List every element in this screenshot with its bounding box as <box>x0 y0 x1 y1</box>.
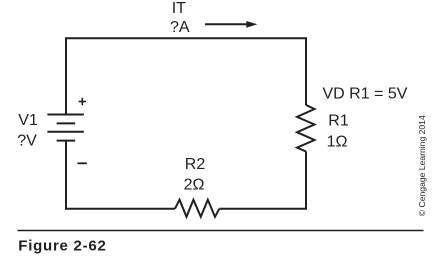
svg-text:?V: ?V <box>17 133 37 150</box>
plus sign <box>79 98 86 105</box>
svg-text:Figure 2-62: Figure 2-62 <box>18 237 106 254</box>
minus sign <box>78 162 87 164</box>
svg-text:2Ω: 2Ω <box>184 177 205 194</box>
wire top and sides of loop <box>66 38 306 114</box>
resistor R2 zigzag <box>175 200 219 217</box>
battery V1 plate long top <box>47 114 83 116</box>
battery V1 plate long lower <box>47 131 83 133</box>
svg-text:1Ω: 1Ω <box>327 133 348 150</box>
current arrow IT <box>205 23 248 25</box>
svg-text:R2: R2 <box>185 156 206 173</box>
wire bottom-right segment up to R1 <box>219 152 306 209</box>
svg-text:VD R1 = 5V: VD R1 = 5V <box>323 85 408 102</box>
wire battery negative to bottom-left corner <box>66 141 175 209</box>
battery V1 plate short bottom <box>57 140 76 142</box>
svg-text:V1: V1 <box>18 112 38 129</box>
figure rule <box>18 230 424 232</box>
battery V1 plate short upper <box>57 122 76 124</box>
resistor R1 zigzag <box>297 105 315 152</box>
svg-text:© Cengage Learning 2014: © Cengage Learning 2014 <box>417 115 427 216</box>
svg-text:R1: R1 <box>328 112 349 129</box>
svg-text:IT: IT <box>172 0 186 17</box>
svg-text:?A: ?A <box>170 19 190 36</box>
